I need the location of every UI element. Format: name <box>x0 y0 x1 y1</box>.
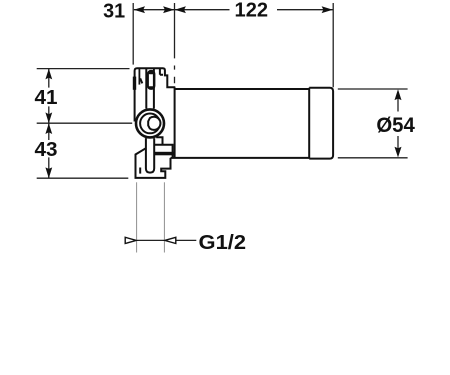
svg-text:31: 31 <box>103 1 125 23</box>
svg-text:122: 122 <box>235 0 269 22</box>
svg-text:Ø54: Ø54 <box>376 114 415 137</box>
svg-text:41: 41 <box>35 87 58 109</box>
svg-text:G1/2: G1/2 <box>199 232 247 254</box>
svg-text:43: 43 <box>35 139 58 161</box>
